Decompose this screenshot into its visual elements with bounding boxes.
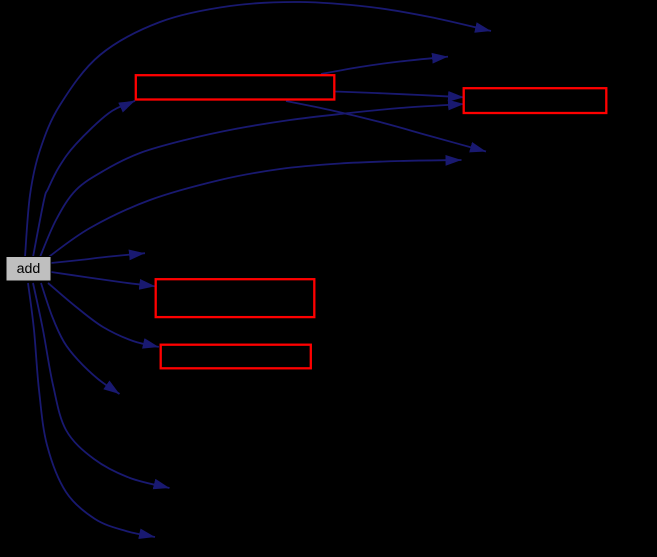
edge add->n8 — [51, 253, 145, 263]
edge add->box2 (lower arrow) — [40, 104, 464, 257]
edge box1->n5 — [321, 57, 448, 74]
edge box1->box2 (upper arrow) — [335, 92, 464, 98]
edge add->n7 (flat curve) — [46, 160, 462, 259]
node box1 (red) — [136, 75, 334, 99]
edge add->n12 — [33, 283, 170, 488]
svg-text:add: add — [17, 261, 41, 277]
edge add->n13 — [28, 283, 155, 537]
edge box1->n6 — [286, 101, 486, 152]
node box3 (red) — [156, 279, 315, 317]
edge add->box1 — [33, 101, 135, 257]
edge add->n11 — [41, 283, 120, 394]
node box2 (red) — [464, 88, 607, 113]
edge add->box3 — [51, 272, 155, 286]
edge add->n2 (top long curve) — [25, 2, 491, 257]
node box4 (red) — [161, 345, 311, 369]
node add (current, grey) — [6, 257, 51, 282]
edge add->box4 — [48, 283, 159, 347]
